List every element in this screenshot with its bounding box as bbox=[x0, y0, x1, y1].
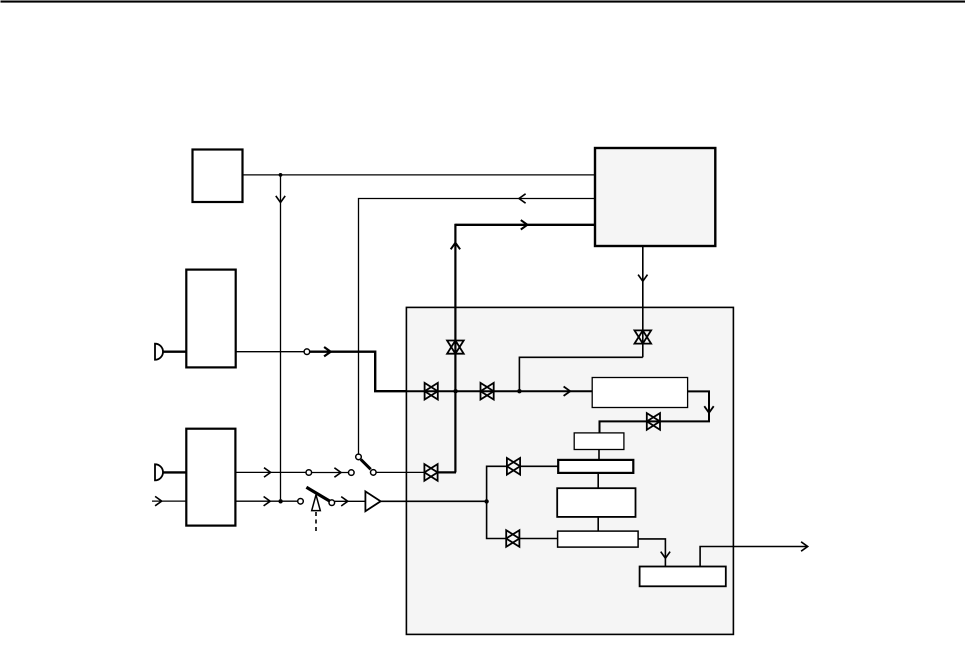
wire W11 (RD to RE) bbox=[597, 517, 599, 531]
node N1 (junction dot on W1) bbox=[279, 173, 283, 177]
valve V5 bbox=[647, 413, 660, 430]
arrow on W20 (right) bbox=[264, 497, 271, 506]
actuator dashed stem bbox=[315, 512, 317, 532]
switch S2 blade (open) bbox=[306, 487, 330, 502]
wire W12 (RE out to RF) bbox=[638, 539, 665, 567]
arrow on W6 (down) bbox=[638, 275, 647, 282]
vessel RF bbox=[640, 567, 726, 587]
node N2 (junction dot W5/W7d) bbox=[453, 389, 457, 393]
wire W23 (N5 up to valve V7 and RC) bbox=[487, 466, 559, 501]
switch S1 blade bbox=[361, 459, 371, 469]
valve V1 (on riser W5) bbox=[447, 341, 464, 354]
wire W6 (U4 bottom output into enclosure) bbox=[519, 246, 642, 391]
box U3 (bottom-left box) bbox=[186, 429, 235, 526]
wire W1 (U1 to U4, y=175) bbox=[243, 174, 595, 176]
node C1 (open circle on U2 output) bbox=[304, 349, 310, 355]
wire W2 (vertical drop from N1) bbox=[280, 175, 282, 500]
valve V6 bbox=[424, 464, 437, 481]
enclosure (shaded panel) bbox=[406, 307, 733, 634]
node N3 (junction dot W6/W7d) bbox=[517, 389, 521, 393]
wire W10 (RC to RD) bbox=[597, 473, 599, 488]
vessel RA bbox=[592, 378, 687, 408]
transducer D1 (half-circle, U2 input) bbox=[155, 344, 163, 360]
header rule bbox=[1, 1, 965, 3]
switch S1 top contact (open circle, fed by W3) bbox=[356, 454, 362, 460]
valve V2 (on W6 drop) bbox=[635, 330, 652, 343]
wire W19 (V6 to riser W5, thick) bbox=[437, 471, 456, 473]
arrow on W4 (right) bbox=[521, 220, 528, 229]
arrow on W13 (right, output) bbox=[801, 542, 808, 551]
node N4 (junction dot, W2 meets W20) bbox=[278, 499, 282, 503]
wire W20 (U3 lower output) bbox=[235, 500, 297, 502]
transducer D2 (half-circle, U3 input) bbox=[155, 464, 163, 480]
wire W18 (S1 to valve V6) bbox=[376, 471, 425, 473]
arrow on W3 (left) bbox=[519, 194, 526, 203]
wire W17 (C2 to switch S1) bbox=[312, 472, 349, 474]
arrow on W21 (right) bbox=[341, 497, 348, 506]
wire W22 (A1 into enclosure to node N5) bbox=[381, 500, 487, 502]
arrow on W17 (right) bbox=[334, 468, 341, 477]
wire W7a (D1 to U2, thick) bbox=[163, 351, 186, 353]
arrow on W2 (down) bbox=[276, 196, 285, 203]
node N5 (junction dot) bbox=[484, 499, 488, 503]
box U1 (top-left small box) bbox=[193, 150, 243, 203]
wire W13 (RF up and out to the right) bbox=[700, 547, 807, 567]
valve V8 bbox=[506, 530, 519, 547]
arrow on W15 (right) bbox=[155, 496, 162, 505]
wire W9 (RB to RC) bbox=[598, 450, 600, 460]
wire W7d (main process line inside enclosure) bbox=[406, 390, 592, 392]
wire W16 (U3 upper output) bbox=[235, 471, 306, 473]
wire W3 (U4 return line to switch S1) bbox=[359, 199, 596, 455]
node C2 (open circle) bbox=[306, 470, 312, 476]
vessel RB bbox=[574, 433, 624, 450]
valve V3 bbox=[425, 383, 438, 400]
valve V4 bbox=[481, 383, 494, 400]
vessel RD bbox=[557, 488, 635, 517]
arrow on W7d (right) bbox=[564, 387, 571, 396]
amplifier A1 (triangle buffer) bbox=[365, 491, 380, 511]
arrow on W7c (right) bbox=[324, 347, 331, 356]
box U2 (middle-left box) bbox=[186, 270, 235, 368]
wire W15 (U3 lower input with arrow) bbox=[152, 500, 186, 502]
arrow on W12 (down) bbox=[661, 552, 670, 559]
switch S2 right contact (open circle) bbox=[329, 500, 335, 506]
wire W8 (RA out, elbow down, back left to RB) bbox=[600, 391, 710, 433]
switch S1 output contact (open circle) bbox=[371, 470, 377, 476]
wire W21 (S2 to amplifier A1) bbox=[335, 500, 366, 502]
box U4 (large shaded box top-right) bbox=[595, 148, 715, 246]
arrow on W5 (up) bbox=[451, 243, 460, 250]
wire W14a (D2 to U3, thick) bbox=[163, 471, 186, 473]
switch S2 left contact (open circle) bbox=[298, 499, 304, 505]
arrow on W8 (down) bbox=[704, 406, 713, 413]
vessel RC (bold) bbox=[558, 460, 633, 473]
arrow on W16 (right) bbox=[264, 468, 271, 477]
wire W24 (N5 down to valve V8 and RE) bbox=[487, 501, 558, 538]
vessel RE bbox=[558, 531, 639, 547]
switch S1 pole (open circle) bbox=[349, 470, 355, 476]
wire W4 (thick supply into U4, y=225) bbox=[455, 224, 595, 226]
wire W5 (thick vertical riser x=455) bbox=[454, 224, 456, 473]
valve V7 bbox=[507, 458, 520, 475]
wire W7c (thick line from C1 into enclosure) bbox=[310, 352, 407, 392]
actuator arrow (hollow, pointing up at S2) bbox=[312, 495, 321, 511]
wire W7b (U2 output to circle) bbox=[236, 351, 304, 353]
